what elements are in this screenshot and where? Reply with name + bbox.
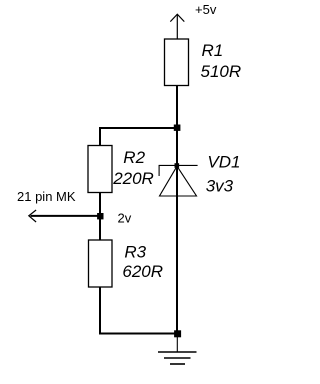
svg-text:220R: 220R	[112, 169, 154, 188]
resistor R3	[89, 240, 113, 287]
arrowhead 21 pin MK	[29, 210, 36, 222]
wire node A to bottom node (main vertical)	[176, 128, 178, 334]
power +5v arrow	[170, 14, 184, 39]
svg-text:21 pin MK: 21 pin MK	[17, 189, 76, 204]
wire R1 bottom to node A	[176, 86, 178, 129]
svg-text:R2: R2	[123, 148, 145, 167]
wire node A to R2 top (left branch)	[100, 128, 177, 146]
wire R3 bottom to bottom node	[100, 287, 178, 334]
zener diode VD1	[159, 165, 198, 196]
wire node 2v to R3 top	[99, 216, 101, 241]
node 2v junction dot	[97, 213, 103, 219]
svg-text:620R: 620R	[122, 262, 163, 281]
svg-text:2v: 2v	[118, 211, 132, 226]
svg-text:R3: R3	[124, 242, 146, 261]
resistor R2	[88, 146, 112, 193]
svg-text:510R: 510R	[201, 62, 242, 81]
node A junction dot	[174, 125, 181, 131]
svg-text:3v3: 3v3	[206, 177, 234, 196]
svg-text:R1: R1	[202, 41, 224, 60]
svg-text:VD1: VD1	[207, 152, 240, 171]
wire node 2v to 21 pin MK arrow	[31, 215, 101, 217]
VD1 cathode junction dot	[175, 163, 180, 168]
bottom node junction dot	[174, 330, 181, 337]
wire R2 bottom to node 2v	[99, 193, 101, 217]
resistor R1	[165, 39, 189, 86]
svg-text:+5v: +5v	[195, 2, 217, 17]
ground	[158, 334, 197, 364]
